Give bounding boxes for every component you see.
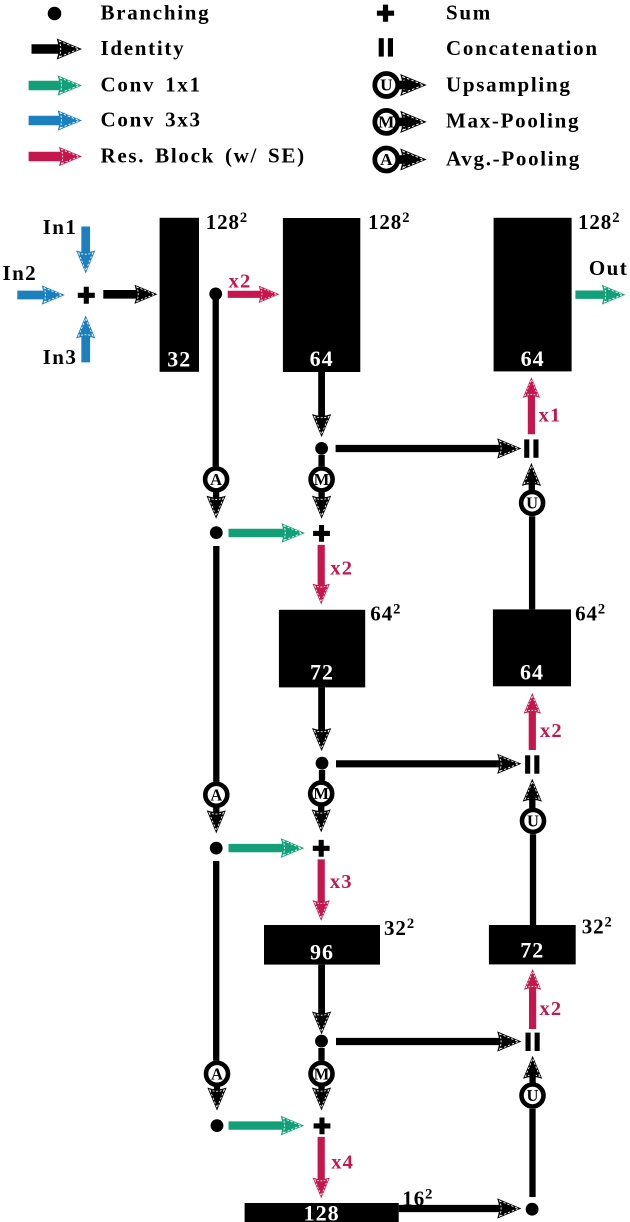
wire stub A2 to arrowhead bbox=[213, 804, 219, 825]
wire left spine segment 2 bbox=[213, 546, 219, 782]
block 96 (32x32) bbox=[264, 925, 380, 965]
legend identity arrow bbox=[32, 38, 83, 59]
max-pool circle M2 bbox=[310, 783, 332, 805]
conv1x1 arrow row C bbox=[229, 838, 305, 858]
block 64 decoder (64x64) bbox=[493, 609, 571, 686]
wire dot to M3 bbox=[318, 1048, 324, 1061]
concat node row 1 bbox=[524, 439, 538, 457]
svg-text:In3: In3 bbox=[43, 345, 78, 369]
branching dot left row B bbox=[210, 526, 223, 539]
arrowhead into sum row C bbox=[312, 809, 331, 832]
legend branching dot bbox=[48, 7, 62, 21]
arrowhead into dot row C left bbox=[207, 810, 226, 833]
upsample circle U3 bbox=[522, 1085, 544, 1107]
svg-text:A: A bbox=[380, 150, 393, 169]
arrowhead up into concat 3 bbox=[523, 1056, 542, 1079]
svg-text:Branching: Branching bbox=[101, 0, 211, 24]
svg-text:x4: x4 bbox=[331, 1151, 354, 1173]
wire stub M2 to arrowhead bbox=[318, 803, 324, 824]
identity arrow to block 32 bbox=[103, 285, 157, 304]
block 64 output (128x128) bbox=[494, 218, 572, 372]
wire left spine segment 3 bbox=[213, 861, 219, 1061]
svg-text:In2: In2 bbox=[3, 261, 38, 285]
branching dot left row C bbox=[210, 842, 223, 855]
arrowhead into sum row D bbox=[312, 1088, 331, 1111]
svg-text:Concatenation: Concatenation bbox=[446, 36, 599, 60]
wire dot to M1 bbox=[318, 455, 324, 466]
block 64 encoder (128x128) bbox=[283, 218, 360, 372]
res-block arrow x4 down to block 128 bbox=[313, 1137, 330, 1198]
res-block arrow x2 up to decoder 64 bbox=[524, 693, 541, 750]
max-pool circle M3 bbox=[311, 1063, 333, 1085]
branching dot left row D bbox=[211, 1119, 224, 1132]
svg-text:Res. Block (w/ SE): Res. Block (w/ SE) bbox=[101, 143, 306, 167]
identity arrow block 64 down bbox=[312, 372, 331, 437]
branching dot mid row 2 bbox=[316, 757, 329, 770]
arrowhead up into concat 1 bbox=[522, 463, 541, 486]
svg-text:U: U bbox=[527, 1086, 539, 1105]
legend upsampling circle U bbox=[375, 74, 398, 97]
svg-text:642: 642 bbox=[370, 601, 401, 625]
branching dot mid row 3 bbox=[315, 1035, 328, 1048]
svg-text:x2: x2 bbox=[540, 998, 563, 1020]
max-pool circle M1 bbox=[311, 468, 333, 490]
res-block arrow x2 to block 64 bbox=[228, 286, 280, 303]
identity wire row 1 to concat bbox=[336, 438, 522, 458]
branching dot bottom right bbox=[526, 1203, 539, 1216]
sum node input bbox=[78, 287, 95, 304]
block 72 (64x64) bbox=[279, 610, 365, 688]
svg-text:U: U bbox=[380, 76, 392, 95]
identity arrow block 96 down bbox=[312, 965, 331, 1035]
svg-text:x3: x3 bbox=[330, 871, 353, 893]
concat node row 3 bbox=[526, 1033, 540, 1051]
sum node row D bbox=[314, 1118, 331, 1135]
legend avg-pooling circle A bbox=[375, 148, 398, 171]
svg-text:A: A bbox=[210, 470, 222, 489]
wire stub A1 to arrowhead bbox=[213, 489, 219, 511]
wire stub M1 to arrowhead bbox=[318, 489, 324, 511]
sum node row C bbox=[313, 840, 330, 857]
concat node row 2 bbox=[525, 755, 539, 773]
res-block arrow x2 up to decoder 72 bbox=[524, 969, 541, 1029]
svg-text:x1: x1 bbox=[539, 404, 562, 426]
svg-text:Identity: Identity bbox=[101, 36, 186, 60]
svg-text:Out: Out bbox=[589, 256, 628, 280]
wire dot to M2 bbox=[319, 770, 325, 781]
legend conv1x1 arrow bbox=[29, 75, 82, 95]
svg-text:A: A bbox=[211, 1064, 223, 1083]
res-block arrow x1 up to output 64 bbox=[523, 377, 540, 434]
upsample circle U2 bbox=[522, 810, 544, 832]
legend avg-pooling arrowhead bbox=[400, 148, 426, 170]
svg-text:Upsampling: Upsampling bbox=[446, 72, 572, 96]
svg-text:A: A bbox=[210, 785, 222, 804]
block 72 decoder (32x32) bbox=[489, 925, 576, 964]
svg-text:72: 72 bbox=[520, 938, 544, 963]
legend max-pooling circle M bbox=[375, 110, 398, 133]
wire stub M3 to arrowhead bbox=[318, 1083, 324, 1102]
svg-text:64: 64 bbox=[521, 346, 545, 371]
identity arrow block 72 down bbox=[312, 687, 331, 751]
identity wire row 2 to concat bbox=[336, 754, 521, 774]
arrowhead up into concat 2 bbox=[523, 779, 542, 802]
identity wire row 3 to concat bbox=[336, 1031, 521, 1051]
svg-text:U: U bbox=[527, 811, 539, 830]
upsample circle U1 bbox=[521, 492, 543, 514]
svg-text:x2: x2 bbox=[229, 271, 252, 293]
legend concatenation symbol bbox=[379, 38, 393, 56]
avg-pool circle A2 bbox=[205, 784, 227, 806]
svg-text:72: 72 bbox=[310, 660, 334, 685]
arrowhead into sum row B bbox=[312, 496, 331, 519]
svg-text:M: M bbox=[314, 1064, 330, 1083]
block 128 (16x16) bbox=[245, 1201, 399, 1222]
legend res-block arrow bbox=[29, 147, 82, 166]
svg-text:322: 322 bbox=[384, 916, 415, 940]
svg-text:M: M bbox=[378, 113, 394, 132]
block 32 (128x128) bbox=[160, 218, 199, 372]
res-block arrow x3 down to block 96 bbox=[313, 859, 330, 921]
svg-text:64: 64 bbox=[520, 660, 544, 685]
conv3x3 arrow In1 down bbox=[76, 227, 95, 274]
svg-text:1282: 1282 bbox=[368, 210, 410, 234]
legend upsampling arrowhead bbox=[400, 74, 426, 96]
svg-text:Conv 1x1: Conv 1x1 bbox=[101, 72, 202, 96]
svg-text:96: 96 bbox=[310, 940, 334, 965]
svg-text:128: 128 bbox=[304, 1201, 340, 1222]
conv1x1 arrow row D bbox=[229, 1116, 305, 1136]
svg-text:M: M bbox=[313, 784, 329, 803]
avg-pool circle A1 bbox=[205, 468, 227, 490]
svg-text:Avg.-Pooling: Avg.-Pooling bbox=[446, 146, 581, 170]
branching dot mid row 1 bbox=[315, 442, 328, 455]
svg-text:64: 64 bbox=[310, 346, 334, 371]
legend max-pooling arrowhead bbox=[400, 111, 426, 133]
wire U2 down to block 72 dec bbox=[530, 834, 536, 925]
conv1x1 arrow Out bbox=[575, 285, 625, 305]
arrowhead into dot row B left bbox=[207, 496, 226, 519]
identity wire bottom to dot bbox=[399, 1198, 522, 1218]
arrowhead into dot row D left bbox=[207, 1088, 226, 1111]
svg-text:Conv 3x3: Conv 3x3 bbox=[101, 107, 202, 131]
svg-text:In1: In1 bbox=[43, 215, 78, 239]
conv3x3 arrow In3 up bbox=[76, 315, 95, 362]
svg-text:M: M bbox=[314, 470, 330, 489]
wire U1 down to block 64 dec bbox=[529, 516, 535, 609]
svg-text:U: U bbox=[526, 493, 538, 512]
res-block arrow x2 down to block 72 bbox=[313, 545, 330, 605]
wire left spine segment 1 bbox=[213, 294, 219, 466]
svg-text:x2: x2 bbox=[540, 720, 563, 742]
branching dot after block 32 bbox=[209, 288, 222, 301]
svg-text:1282: 1282 bbox=[578, 210, 620, 234]
wire stub A3 to arrowhead bbox=[214, 1084, 220, 1102]
sum node row B bbox=[313, 525, 330, 542]
wire U3 down to bottom dot bbox=[529, 1109, 535, 1197]
conv3x3 arrow In2 right bbox=[17, 285, 65, 304]
svg-text:322: 322 bbox=[582, 915, 613, 939]
legend sum symbol bbox=[377, 5, 394, 22]
svg-text:1282: 1282 bbox=[206, 210, 248, 234]
svg-text:32: 32 bbox=[167, 347, 191, 372]
svg-text:642: 642 bbox=[575, 602, 606, 626]
svg-text:Sum: Sum bbox=[446, 0, 492, 24]
svg-text:Max-Pooling: Max-Pooling bbox=[446, 109, 580, 133]
avg-pool circle A3 bbox=[206, 1063, 228, 1085]
conv1x1 arrow row B bbox=[229, 523, 306, 543]
legend conv3x3 arrow bbox=[29, 110, 82, 130]
svg-text:x2: x2 bbox=[330, 558, 353, 580]
